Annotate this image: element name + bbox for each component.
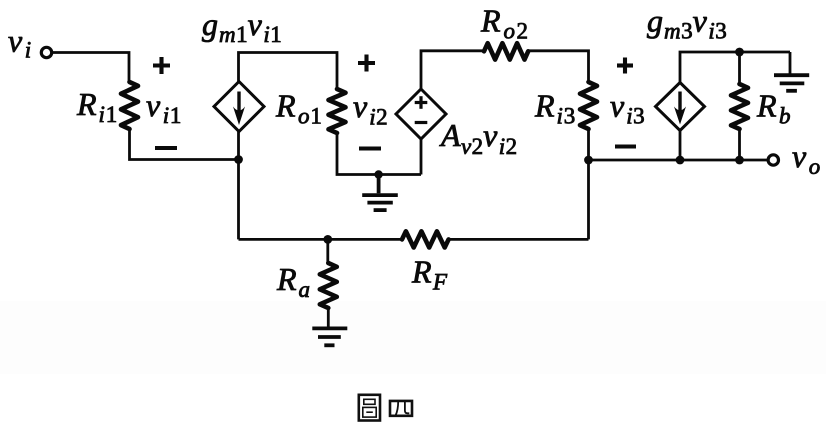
svg-text:Ri3: Ri3 [534,88,575,129]
plus sign vi1 [153,57,170,74]
wire bottom rail left segment [239,238,403,241]
node B junction dot [584,156,593,165]
wire Ro2 right to Ri3 top [528,51,588,82]
wire Ra bottom to ground [327,308,330,327]
minus sign inside Av2 source [415,121,428,124]
minus sign vi3 [615,144,636,148]
resistor Ra [320,263,337,308]
voltage source Av2*vi2 (diamond U2) [396,89,446,139]
wire vi terminal to Ri1 top [52,53,129,83]
resistor Ro1 [329,89,346,133]
圖 inner-inner mark [366,411,373,413]
svg-text:Ri1: Ri1 [76,86,117,127]
arrow inside gm1 source [233,92,245,126]
faint scan wash band [0,301,826,374]
wire Ri1 bottom to node A [130,129,239,160]
resistor Ri3 [580,82,597,129]
wire gm1 bottom to node A [237,131,240,160]
wire node A down to bottom rail [237,160,240,240]
node A junction dot [234,155,243,164]
resistor Ro2 [484,43,528,59]
resistor RF [402,231,449,247]
plus sign vi3 [617,58,633,74]
四 inner stroke 2 [405,401,409,413]
node F junction dot (top of Ra) [323,235,332,244]
svg-text:gm3vi3: gm3vi3 [647,3,727,44]
svg-text:gm1vi1: gm1vi1 [202,6,282,47]
ground (below Ra) [312,328,347,345]
ground (middle) [362,175,398,211]
svg-text:RF: RF [411,254,448,295]
node D junction dot (below gm3) [676,156,685,165]
arrow inside gm3 source [674,92,686,125]
svg-text:Ro2: Ro2 [480,3,528,44]
svg-text:vi2: vi2 [353,88,388,130]
svg-text:Av2vi2: Av2vi2 [439,117,517,159]
svg-text:vi: vi [8,23,31,63]
svg-text:vi3: vi3 [610,88,645,129]
wire Rb top [738,52,741,84]
node mid-ground junction dot [374,170,382,178]
wire Ri3 bottom to node B [587,129,590,160]
wire Av2 top to Ro2 and down to Ri3 top [421,51,484,90]
node C junction dot (top of Rb) [735,48,744,57]
圖 inner top mouth [364,399,375,404]
wire top rail down to ground (right) [789,52,792,74]
wire gm1 top to top rail and to Ro1 top [239,53,338,90]
wire node B right to vo terminal [589,159,769,162]
svg-text:vi1: vi1 [146,87,181,128]
wire node B down to bottom rail [587,160,590,239]
resistor Rb [731,84,748,129]
wire bottom rail right segment [449,238,589,241]
wire gm3 top to top rail right [680,52,790,83]
plus sign inside Av2 source [415,96,428,109]
ground (top right) [774,75,809,91]
node vo output terminal [768,155,778,165]
wire Rb bottom to output rail [738,129,741,160]
圖 inner bottom box [363,407,376,417]
svg-text:Rb: Rb [756,88,791,129]
svg-text:Ra: Ra [276,261,310,302]
caption 圖四 (Figure 4) drawn as strokes [359,395,412,421]
wire Ro1 bottom to mid ground wire [337,133,421,175]
resistor Ri1 [121,82,138,129]
四 outer box [390,401,412,416]
圖 outer box [359,395,380,421]
svg-text:Ro1: Ro1 [275,88,322,129]
wire gm3 bottom to output rail [679,130,682,160]
wire Av2 bottom to mid ground wire [420,139,423,175]
node E junction dot (below Rb) [735,156,744,165]
current source gm3*vi3 (diamond U3) [656,83,705,131]
minus sign vi1 [155,146,177,150]
plus sign vi2 [358,55,375,72]
current source gm1*vi1 (diamond U1) [214,82,264,132]
minus sign vi2 [359,146,381,150]
wire Ra top [326,239,329,263]
四 inner stroke 1 [395,401,398,416]
svg-text:vo: vo [792,138,820,179]
node vi input terminal [41,47,51,57]
